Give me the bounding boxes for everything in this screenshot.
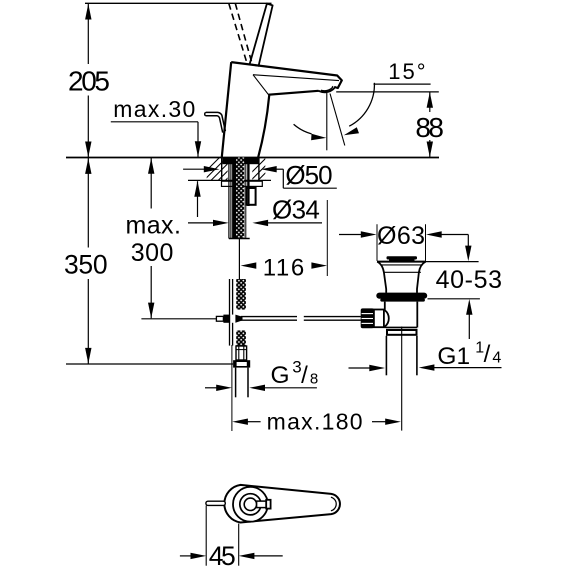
svg-text:205: 205 <box>68 65 110 96</box>
dimension 45 label <box>209 541 236 568</box>
swivel arc right with arrowhead <box>344 83 375 135</box>
aerator <box>318 86 335 92</box>
connection pipe <box>236 368 248 398</box>
dimension 205 label <box>68 65 110 96</box>
dimension max.300 line <box>148 158 154 318</box>
faucet handle alternate position dashed <box>229 3 253 64</box>
svg-text:4: 4 <box>492 350 501 367</box>
dimension diameter 63 <box>339 224 468 261</box>
dimension max.300 label <box>126 211 181 267</box>
dimension G3/8 label <box>271 358 319 390</box>
svg-text:Ø50: Ø50 <box>285 160 332 190</box>
deck bottom line <box>188 179 271 181</box>
svg-text:/: / <box>301 362 308 389</box>
dimension diameter 50 leader <box>183 166 337 188</box>
handle cap circle <box>233 487 268 522</box>
dimension G1 1/4 <box>349 364 502 371</box>
svg-text:max.30: max.30 <box>113 96 195 122</box>
dimension diameter 34 label <box>272 195 320 225</box>
dimension 40-53 label <box>436 266 502 294</box>
hose end collar <box>236 346 247 360</box>
shank flange black band <box>223 158 259 164</box>
dimension max.30 label <box>113 96 195 122</box>
faucet handle solid <box>250 4 273 66</box>
svg-text:40-53: 40-53 <box>436 266 502 294</box>
top extension line <box>85 2 272 4</box>
handle middle circle <box>240 494 261 515</box>
dimension G1 1/4 label <box>437 339 501 370</box>
handle set pin left <box>206 501 225 505</box>
dimension max.30 lower arrow <box>194 181 200 217</box>
dimension diameter 50 label <box>285 160 332 190</box>
svg-text:/: / <box>484 341 491 368</box>
drain flange <box>377 262 426 293</box>
water stream 15 degree line <box>330 94 345 146</box>
drain plug cap <box>387 256 418 261</box>
dimension 45 <box>180 506 283 566</box>
svg-text:8: 8 <box>310 371 318 388</box>
threaded shank assembly <box>229 158 250 239</box>
svg-text:Ø34: Ø34 <box>272 195 320 225</box>
drain valve body <box>385 302 418 328</box>
dimension 205 line <box>85 3 91 157</box>
handle top view outline <box>224 485 340 523</box>
handle pin <box>257 500 271 509</box>
svg-text:300: 300 <box>131 239 174 267</box>
faucet body <box>222 62 342 157</box>
svg-text:G1: G1 <box>437 343 470 370</box>
svg-text:350: 350 <box>64 249 108 279</box>
svg-text:15°: 15° <box>388 59 425 84</box>
hose nut G3/8 <box>233 360 250 367</box>
svg-text:45: 45 <box>209 541 236 568</box>
svg-text:88: 88 <box>415 112 444 143</box>
dimension diameter 63 label <box>377 222 425 250</box>
dimension 88 label <box>415 112 444 143</box>
mounting washer <box>222 181 263 186</box>
116 extension line <box>326 200 328 276</box>
deck cross-section hatching <box>196 157 270 181</box>
dimension max.30 leader <box>111 122 201 157</box>
spout outlet level line <box>336 91 439 93</box>
drain tail pipe G1 1/4 <box>386 336 417 376</box>
dimension 116 arrows <box>241 262 328 268</box>
dimension max.180 label <box>267 408 363 434</box>
dimension 40-53 <box>420 235 480 340</box>
water stream vertical line <box>326 93 328 150</box>
drain centerline <box>401 327 403 431</box>
drain knob <box>361 308 374 328</box>
mounting nut <box>246 188 255 205</box>
svg-text:max.: max. <box>126 211 181 239</box>
svg-text:G: G <box>271 362 290 389</box>
svg-text:Ø63: Ø63 <box>377 222 425 250</box>
dimension 88 line <box>427 92 433 158</box>
dimension G3/8 arrows <box>205 385 317 391</box>
drain knob collar <box>374 310 384 328</box>
dimension 350 line <box>85 158 91 364</box>
braided hose lower section <box>230 279 246 346</box>
drain seal ring <box>376 293 427 302</box>
supply hose end reference line <box>141 318 216 320</box>
350 bottom reference line <box>66 363 233 365</box>
deck datum line <box>66 157 439 159</box>
15 degree baseline <box>374 83 431 85</box>
extension line left of pipe <box>231 345 233 431</box>
pop-up rod <box>205 112 226 132</box>
hose tee fitting <box>216 315 242 323</box>
svg-text:max.180: max.180 <box>267 408 363 434</box>
thin hose line <box>238 239 240 280</box>
dimension 350 label <box>64 249 108 279</box>
handle inner circle <box>244 498 256 510</box>
dimension 15 degrees label <box>388 59 425 84</box>
dimension 116 label <box>263 255 304 282</box>
drain bottom collar <box>386 329 418 336</box>
escutcheon edges through deck <box>222 158 259 181</box>
dimension max.180 <box>232 419 401 425</box>
horizontal connection hose double line <box>241 317 361 321</box>
dimension diameter 34 leader <box>188 220 322 226</box>
swivel arc left with arrowhead <box>294 124 327 140</box>
svg-text:116: 116 <box>263 255 304 282</box>
